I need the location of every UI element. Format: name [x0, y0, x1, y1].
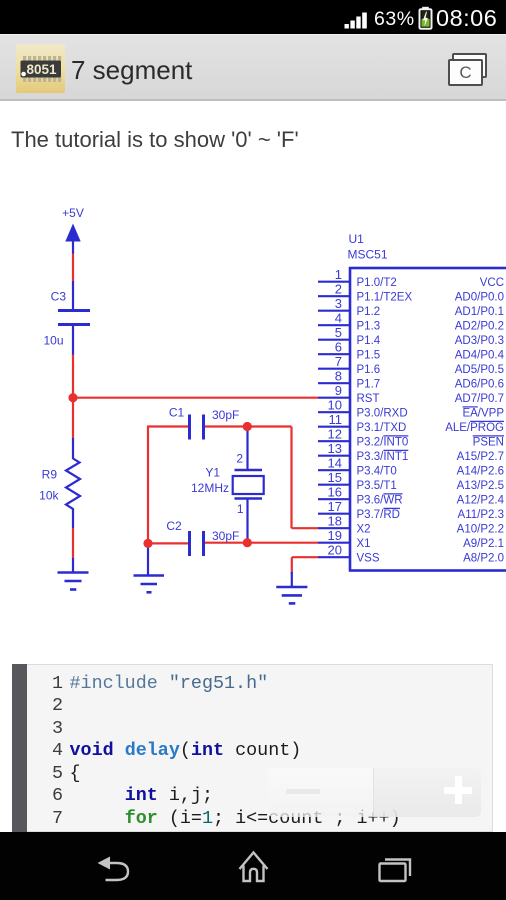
svg-text:4: 4: [335, 311, 342, 326]
svg-text:P3.6/WR: P3.6/WR: [357, 495, 403, 507]
svg-text:R9: R9: [42, 468, 58, 482]
svg-text:12: 12: [328, 427, 342, 442]
svg-text:9: 9: [335, 383, 342, 398]
svg-text:AD1/P0.1: AD1/P0.1: [455, 306, 504, 318]
svg-text:X1: X1: [357, 538, 371, 550]
svg-text:1: 1: [335, 267, 342, 282]
svg-text:15: 15: [328, 470, 342, 485]
svg-text:14: 14: [328, 456, 342, 471]
svg-text:P1.3: P1.3: [357, 321, 381, 333]
svg-text:19: 19: [328, 528, 342, 543]
svg-text:C2: C2: [166, 519, 182, 533]
svg-text:P1.4: P1.4: [357, 335, 381, 347]
svg-text:P3.3/INT1: P3.3/INT1: [357, 451, 409, 463]
svg-text:5: 5: [335, 325, 342, 340]
svg-text:A13/P2.5: A13/P2.5: [457, 480, 504, 492]
svg-text:A15/P2.7: A15/P2.7: [457, 451, 504, 463]
svg-text:+5V: +5V: [62, 206, 84, 220]
svg-text:P1.7: P1.7: [357, 379, 381, 391]
svg-text:P3.0/RXD: P3.0/RXD: [357, 408, 408, 420]
svg-text:AD3/P0.3: AD3/P0.3: [455, 335, 504, 347]
svg-text:A10/P2.2: A10/P2.2: [457, 524, 504, 536]
svg-text:P3.1/TXD: P3.1/TXD: [357, 422, 407, 434]
svg-text:16: 16: [328, 485, 342, 500]
svg-text:P1.5: P1.5: [357, 350, 381, 362]
svg-text:EA/VPP: EA/VPP: [462, 408, 504, 420]
svg-text:VCC: VCC: [480, 277, 504, 289]
svg-text:10u: 10u: [43, 334, 63, 348]
svg-text:20: 20: [328, 543, 342, 558]
svg-text:A9/P2.1: A9/P2.1: [463, 538, 504, 550]
svg-text:2: 2: [335, 282, 342, 297]
svg-text:AD2/P0.2: AD2/P0.2: [455, 321, 504, 333]
svg-text:30pF: 30pF: [212, 529, 239, 543]
svg-text:P3.4/T0: P3.4/T0: [357, 466, 397, 478]
svg-text:PSEN: PSEN: [473, 437, 504, 449]
svg-text:A12/P2.4: A12/P2.4: [457, 495, 505, 507]
svg-text:30pF: 30pF: [212, 408, 239, 422]
svg-text:6: 6: [335, 340, 342, 355]
svg-text:11: 11: [329, 412, 343, 427]
svg-text:U1: U1: [349, 232, 365, 246]
svg-text:P3.7/RD: P3.7/RD: [357, 509, 400, 521]
svg-text:AD0/P0.0: AD0/P0.0: [455, 292, 504, 304]
svg-text:AD4/P0.4: AD4/P0.4: [455, 350, 505, 362]
svg-text:X2: X2: [357, 524, 371, 536]
svg-text:A14/P2.6: A14/P2.6: [457, 466, 504, 478]
svg-text:AD5/P0.5: AD5/P0.5: [455, 364, 504, 376]
svg-text:C1: C1: [169, 406, 185, 420]
svg-text:10: 10: [328, 398, 342, 413]
svg-text:Y1: Y1: [205, 466, 220, 480]
svg-text:8051: 8051: [26, 62, 57, 77]
svg-text:P1.6: P1.6: [357, 364, 381, 376]
svg-text:P3.5/T1: P3.5/T1: [357, 480, 397, 492]
svg-text:AD7/P0.7: AD7/P0.7: [455, 393, 504, 405]
svg-text:7: 7: [335, 354, 342, 369]
svg-text:12MHz: 12MHz: [191, 481, 229, 495]
svg-text:MSC51: MSC51: [348, 248, 388, 262]
svg-text:AD6/P0.6: AD6/P0.6: [455, 379, 504, 391]
svg-text:A11/P2.3: A11/P2.3: [458, 509, 504, 521]
svg-text:RST: RST: [357, 393, 380, 405]
svg-text:P1.0/T2: P1.0/T2: [357, 277, 397, 289]
svg-text:P1.2: P1.2: [357, 306, 381, 318]
svg-text:8: 8: [335, 369, 342, 384]
svg-text:VSS: VSS: [357, 553, 380, 565]
svg-text:P3.2/INT0: P3.2/INT0: [357, 437, 409, 449]
svg-text:ALE/PROG: ALE/PROG: [445, 422, 504, 434]
svg-text:2: 2: [236, 452, 243, 466]
svg-text:C3: C3: [51, 290, 67, 304]
svg-text:18: 18: [328, 514, 342, 529]
svg-text:A8/P2.0: A8/P2.0: [463, 553, 504, 565]
svg-text:3: 3: [335, 296, 342, 311]
svg-text:17: 17: [328, 499, 342, 514]
svg-text:P1.1/T2EX: P1.1/T2EX: [357, 292, 413, 304]
svg-text:13: 13: [328, 441, 342, 456]
svg-text:1: 1: [237, 502, 244, 516]
svg-text:10k: 10k: [39, 489, 59, 503]
